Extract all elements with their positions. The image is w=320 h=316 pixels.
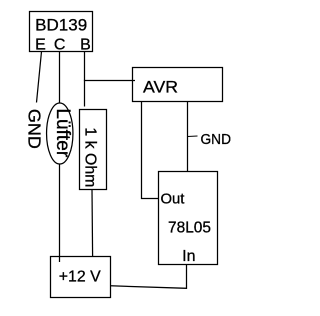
svg-text:GND: GND <box>201 131 232 148</box>
wire resistor to +12V <box>91 190 94 257</box>
svg-text:In: In <box>182 248 195 265</box>
svg-text:B: B <box>80 37 91 54</box>
svg-text:+12 V: +12 V <box>59 269 101 286</box>
svg-text:1 k Ohm: 1 k Ohm <box>81 127 98 187</box>
svg-text:Out: Out <box>161 191 186 208</box>
wire B to AVR (horizontal) <box>84 80 135 82</box>
regulator U3 78L05 box <box>159 172 218 265</box>
wire AVR pin2 to 78L05 top <box>187 102 189 172</box>
svg-text:C: C <box>54 37 66 54</box>
wire 78L05 In to +12V <box>111 265 187 289</box>
wire B pin vertical to resistor <box>84 52 86 107</box>
transistor Q1 BD139 box <box>30 12 93 52</box>
resistor R1 box <box>80 110 107 190</box>
svg-text:BD139: BD139 <box>35 15 87 34</box>
fan M1 Lüfter (ellipse) <box>47 103 73 164</box>
wire C pin to fan <box>59 52 61 104</box>
wire E pin to GND <box>37 52 42 103</box>
svg-text:GND: GND <box>25 109 45 149</box>
svg-text:E: E <box>35 37 46 54</box>
svg-text:AVR: AVR <box>143 77 178 96</box>
wire fan to +12V <box>59 164 61 262</box>
wire GND leader tick <box>188 135 198 138</box>
svg-text:78L05: 78L05 <box>168 220 211 237</box>
mcu U2 AVR box <box>133 68 223 102</box>
svg-text:Lüfter: Lüfter <box>52 108 73 157</box>
power source +12V box <box>51 257 111 298</box>
wire AVR pin1 to 78L05 Out <box>142 102 159 199</box>
